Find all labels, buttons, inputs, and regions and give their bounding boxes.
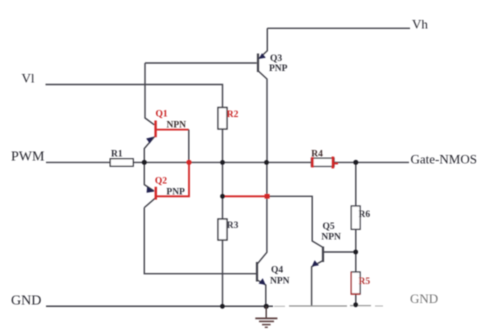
svg-text:NPN: NPN	[167, 120, 187, 130]
svg-text:GND: GND	[11, 293, 41, 308]
svg-text:Vl: Vl	[22, 71, 35, 86]
svg-text:Q4: Q4	[271, 266, 283, 276]
svg-text:PNP: PNP	[269, 64, 288, 74]
svg-text:R1: R1	[111, 149, 123, 159]
svg-text:R2: R2	[227, 110, 239, 120]
svg-text:Q2: Q2	[155, 177, 167, 187]
svg-text:R3: R3	[227, 221, 239, 231]
svg-text:R6: R6	[359, 210, 371, 220]
svg-text:NPN: NPN	[321, 233, 341, 243]
svg-text:R4: R4	[311, 150, 323, 160]
svg-text:Q3: Q3	[270, 54, 282, 64]
svg-text:Q5: Q5	[323, 222, 335, 232]
svg-text:GND: GND	[410, 291, 438, 306]
svg-text:PWM: PWM	[11, 149, 45, 164]
svg-text:PNP: PNP	[166, 187, 185, 197]
svg-text:Vh: Vh	[412, 17, 428, 32]
svg-text:R5: R5	[359, 277, 371, 287]
svg-text:NPN: NPN	[270, 277, 290, 287]
svg-text:Q1: Q1	[156, 110, 168, 120]
svg-text:Gate-NMOS: Gate-NMOS	[411, 152, 477, 167]
